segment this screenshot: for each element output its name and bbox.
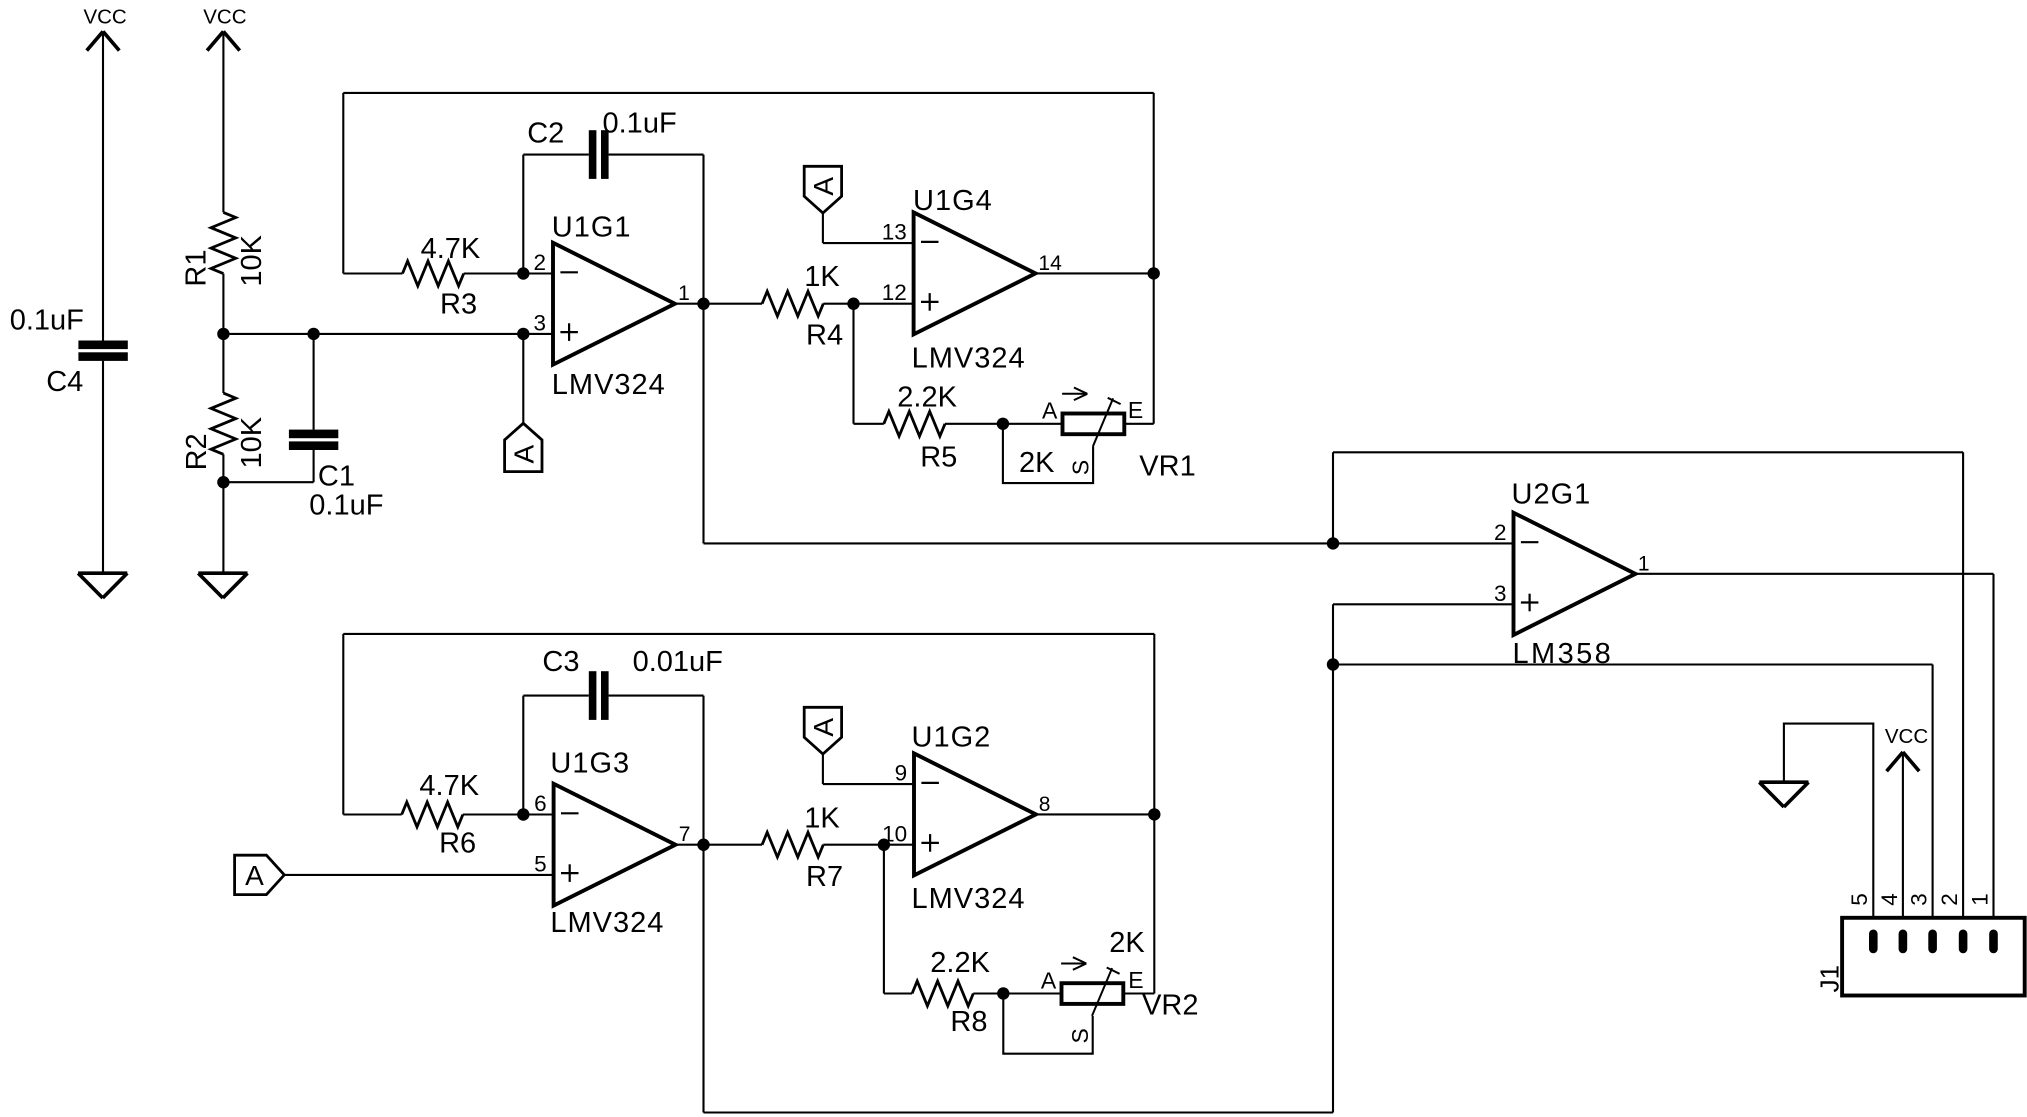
C2 value label 0.1uF	[603, 108, 677, 140]
svg-text:C4: C4	[46, 366, 83, 398]
wire node to C1	[313, 334, 315, 430]
svg-text:R2: R2	[181, 433, 213, 470]
svg-text:1K: 1K	[804, 803, 840, 835]
svg-text:U2G1: U2G1	[1512, 479, 1592, 511]
R1 ref label	[181, 250, 213, 287]
svg-text:U1G4: U1G4	[913, 185, 993, 217]
R7 ref label	[806, 861, 843, 893]
svg-text:A: A	[808, 718, 839, 737]
wire to J1 pin2 (top)	[1333, 452, 1963, 930]
R4 ref label	[806, 320, 843, 352]
ground GND3 (J1)	[1759, 782, 1808, 807]
VR1 value label 2K	[1019, 447, 1055, 479]
U1G3 pin 5 number	[534, 851, 547, 876]
wire U1G3 out to R7	[676, 844, 763, 846]
wire riser left to R3	[343, 93, 402, 274]
svg-text:VCC: VCC	[1885, 725, 1928, 748]
power flag VCC #1	[83, 5, 126, 50]
junction R4/R5 node	[847, 298, 859, 310]
svg-text:R1: R1	[181, 250, 213, 287]
junction U1G2 out / feedback	[1148, 808, 1160, 820]
svg-text:0.1uF: 0.1uF	[309, 490, 383, 522]
resistor R3	[403, 261, 464, 286]
wire VCC1 to C4	[102, 31, 104, 340]
wire pin3 node down to flag	[522, 334, 524, 423]
resistor R7	[762, 832, 823, 857]
svg-text:LMV324: LMV324	[552, 369, 666, 401]
R6 ref label	[439, 827, 476, 859]
R6 value label 4.7K	[419, 770, 479, 802]
wire U2G1 output to J1 pin1	[1635, 574, 1993, 930]
U2G1 value label LM358	[1513, 638, 1614, 670]
VR2 terminal label S	[1067, 1028, 1093, 1043]
VR1 terminal label E	[1128, 397, 1143, 423]
capacitor C3	[589, 671, 609, 720]
resistor R8	[912, 981, 973, 1006]
junction U1G3 pin6 node	[517, 808, 529, 820]
C2 ref label	[527, 117, 564, 149]
wire divider node to U1G1 pin3	[223, 333, 553, 335]
potentiometer VR2	[1061, 957, 1123, 1016]
wire flag to U1G2 pin9	[823, 754, 914, 784]
global label A (U1G3 +in)	[235, 855, 285, 894]
R3 value label 4.7K	[421, 233, 481, 265]
U1G3 pin 6 number	[534, 791, 547, 816]
svg-text:0.1uF: 0.1uF	[10, 305, 84, 337]
wire junction to GND2	[222, 482, 224, 573]
wire C4 to GND1	[102, 361, 104, 573]
wire stage2 riser to U2G1 pin3	[1332, 665, 1334, 1113]
svg-text:2K: 2K	[1109, 927, 1145, 959]
svg-text:R4: R4	[806, 320, 843, 352]
junction R2/C1 bottom	[217, 476, 229, 488]
svg-text:4.7K: 4.7K	[421, 233, 481, 265]
svg-text:S: S	[1068, 460, 1094, 475]
wire branch up	[1332, 452, 1334, 543]
svg-text:1: 1	[1638, 552, 1650, 575]
svg-text:A: A	[509, 444, 540, 463]
C1 ref label	[318, 460, 355, 492]
junction R1/R2 node	[217, 328, 229, 340]
svg-text:4.7K: 4.7K	[419, 770, 479, 802]
svg-text:A: A	[1042, 397, 1058, 423]
svg-text:R8: R8	[950, 1006, 987, 1038]
U1G4 pin 13 number	[882, 220, 907, 245]
R2 value label 10K	[236, 416, 268, 468]
capacitor C4	[78, 341, 127, 361]
svg-text:A: A	[808, 177, 839, 196]
svg-text:9: 9	[895, 761, 908, 786]
wire C3 to U1G3 output vertical	[609, 696, 704, 1113]
resistor R1	[211, 212, 236, 273]
wire R3 to U1G1 pin2	[464, 272, 553, 274]
junction R7/R8 node	[878, 839, 890, 851]
J1 pin 4 number	[1877, 893, 1902, 906]
svg-text:6: 6	[534, 791, 547, 816]
svg-text:C2: C2	[527, 117, 564, 149]
R2 ref label	[181, 433, 213, 470]
capacitor C2	[589, 130, 609, 179]
wire stage1 out rail to U2G1 pin2	[704, 542, 1514, 544]
wire node to R2	[222, 334, 224, 393]
svg-text:R6: R6	[439, 827, 476, 859]
wire VR1 S loop	[1003, 424, 1093, 483]
C1 value label 0.1uF	[309, 490, 383, 522]
wire feedback top rail (U1G4 out to R3)	[343, 92, 1153, 94]
junction stage2 node	[1327, 658, 1339, 670]
wire U1G2 output	[1036, 813, 1154, 815]
wire VR2 S loop	[1003, 994, 1092, 1054]
U1G1 value label LMV324	[552, 369, 666, 401]
svg-text:C1: C1	[318, 460, 355, 492]
R5 value label 2.2K	[897, 381, 957, 413]
J1 ref label	[1814, 965, 1844, 992]
svg-text:13: 13	[882, 220, 907, 245]
U1G1 pin 2 number	[533, 250, 546, 275]
U1G2 ref label	[912, 721, 992, 753]
wire flag to U1G4 pin13	[823, 213, 914, 243]
wire pin6 node to C3	[523, 696, 589, 815]
wire U1G2 out vertical	[1153, 634, 1155, 994]
potentiometer VR1	[1062, 388, 1124, 447]
C4 ref label	[46, 366, 83, 398]
op-amp U1G1	[553, 243, 675, 365]
svg-text:VCC: VCC	[203, 5, 246, 28]
VR2 value label 2K	[1109, 927, 1145, 959]
VR1 terminal label S	[1068, 460, 1094, 475]
global label A (U1G4 -in)	[804, 166, 841, 213]
junction U1G4 out / feedback	[1148, 267, 1160, 279]
svg-text:2K: 2K	[1019, 447, 1055, 479]
wire node to U2G1 pin3	[1333, 604, 1514, 664]
wire R6 to U1G3 pin6	[463, 813, 554, 815]
svg-text:14: 14	[1038, 252, 1062, 275]
U2G1 pin 2 number	[1494, 520, 1507, 545]
svg-text:LMV324: LMV324	[550, 907, 664, 939]
svg-text:4: 4	[1877, 893, 1902, 906]
svg-text:10K: 10K	[236, 234, 268, 286]
svg-text:R3: R3	[440, 288, 477, 320]
junction U1G1 pin3 node	[517, 328, 529, 340]
global label A (U1G2 -in)	[804, 707, 841, 754]
op-amp U1G3	[554, 784, 676, 906]
svg-text:12: 12	[882, 280, 907, 305]
svg-text:LMV324: LMV324	[912, 343, 1026, 375]
wire R7 to U1G2 pin10	[823, 844, 914, 846]
R1 value label 10K	[236, 234, 268, 286]
wire flag to U1G3 pin5	[284, 874, 553, 876]
svg-text:1K: 1K	[804, 261, 840, 293]
svg-text:LM358: LM358	[1513, 638, 1614, 670]
VR2 terminal label E	[1128, 967, 1143, 993]
wire R4 to U1G4 pin12	[823, 303, 913, 305]
U1G4 value label LMV324	[912, 343, 1026, 375]
U1G1 pin 1 number	[678, 282, 690, 305]
U2G1 pin 1 number	[1638, 552, 1650, 575]
junction U1G1 pin2 node	[517, 267, 529, 279]
svg-text:10: 10	[882, 822, 907, 847]
svg-text:A: A	[1041, 968, 1057, 994]
R5 ref label	[920, 442, 957, 474]
wire C2 to U1G1 output vertical	[609, 155, 704, 544]
svg-text:S: S	[1067, 1028, 1093, 1043]
resistor R4	[762, 291, 823, 316]
svg-text:A: A	[245, 860, 264, 891]
connector J1	[1842, 918, 2025, 996]
U2G1 pin 3 number	[1494, 581, 1507, 606]
wire pin2 node to C2	[523, 155, 589, 274]
wire node to J1 pin3	[1333, 665, 1933, 931]
op-amp U2G1	[1514, 513, 1636, 635]
junction R8/VR2 wiper node	[997, 987, 1009, 999]
wire VCC2 to R1	[222, 31, 224, 212]
junction R5/VR1 wiper node	[997, 418, 1009, 430]
J1 pin 1 number	[1967, 893, 1992, 906]
svg-text:1: 1	[678, 282, 690, 305]
svg-text:VCC: VCC	[83, 5, 126, 28]
resistor R2	[211, 393, 236, 454]
svg-text:U1G3: U1G3	[550, 748, 630, 780]
wire node down to R5	[854, 304, 884, 424]
wire R8 to VR2	[973, 992, 1061, 994]
wire node down to R8	[884, 845, 912, 994]
U2G1 ref label	[1512, 479, 1592, 511]
U1G1 ref label	[552, 211, 632, 243]
svg-text:8: 8	[1039, 793, 1051, 816]
C3 value label 0.01uF	[633, 646, 723, 678]
R4 value label 1K	[804, 261, 840, 293]
wire U1G1 out to R4	[675, 303, 762, 305]
resistor R6	[402, 802, 463, 827]
ground GND1	[78, 573, 127, 598]
svg-text:U1G1: U1G1	[552, 211, 632, 243]
svg-text:3: 3	[533, 310, 546, 335]
svg-text:10K: 10K	[236, 416, 268, 468]
op-amp U1G2	[914, 753, 1036, 875]
svg-text:1: 1	[1967, 893, 1992, 906]
ground GND2	[198, 573, 247, 598]
wire VCC to J1 pin4	[1902, 752, 1904, 930]
svg-text:R5: R5	[920, 442, 957, 474]
svg-text:2: 2	[533, 250, 546, 275]
wire R2 to junction	[222, 454, 224, 482]
U1G4 pin 12 number	[882, 280, 907, 305]
U1G2 pin 9 number	[895, 761, 908, 786]
U1G2 pin 8 number	[1039, 793, 1051, 816]
VR2 terminal label A	[1041, 968, 1057, 994]
VR1 terminal label A	[1042, 397, 1058, 423]
svg-text:0.01uF: 0.01uF	[633, 646, 723, 678]
capacitor C1	[289, 430, 338, 450]
svg-text:C3: C3	[542, 646, 579, 678]
VR2 ref label	[1142, 990, 1198, 1022]
svg-text:5: 5	[534, 851, 547, 876]
svg-text:2: 2	[1494, 520, 1507, 545]
wire R5 to VR1	[945, 423, 1063, 425]
svg-text:3: 3	[1494, 581, 1507, 606]
U1G4 pin 14 number	[1038, 252, 1062, 275]
VR1 ref label	[1139, 451, 1195, 483]
svg-text:R7: R7	[806, 861, 843, 893]
J1 pin 2 number	[1937, 893, 1962, 906]
svg-text:J1: J1	[1814, 965, 1844, 992]
svg-text:LMV324: LMV324	[912, 883, 1026, 915]
U1G2 pin 10 number	[882, 822, 907, 847]
R7 value label 1K	[804, 803, 840, 835]
junction stage1 rail / J1 pin2 branch	[1327, 537, 1339, 549]
wire feedback top rail (U1G2 out to R6)	[343, 633, 1154, 635]
junction C1 top	[307, 328, 319, 340]
wire C1 to junction	[223, 450, 313, 482]
svg-text:3: 3	[1907, 893, 1932, 906]
junction U1G1 output	[697, 298, 709, 310]
U1G3 value label LMV324	[550, 907, 664, 939]
svg-text:E: E	[1128, 397, 1143, 423]
C3 ref label	[542, 646, 579, 678]
wire GND3 to J1 pin5	[1784, 724, 1873, 930]
wire riser left to R6	[343, 634, 401, 815]
R8 ref label	[950, 1006, 987, 1038]
junction U1G3 output	[697, 839, 709, 851]
resistor R5	[884, 411, 945, 436]
power flag VCC #2	[203, 5, 246, 50]
J1 pin 3 number	[1907, 893, 1932, 906]
J1 pin 5 number	[1847, 893, 1872, 906]
U1G2 value label LMV324	[912, 883, 1026, 915]
wire VR1 E to feedback vertical	[1124, 423, 1153, 425]
U1G1 pin 3 number	[533, 310, 546, 335]
R8 value label 2.2K	[930, 947, 990, 979]
global label A (U1G1 +in)	[505, 423, 542, 471]
wire feedback right vertical	[1153, 93, 1155, 424]
U1G4 ref label	[913, 185, 993, 217]
wire stage2 out rail	[704, 1111, 1334, 1113]
wire VR2 E to U1G2 out vertical	[1124, 992, 1154, 994]
svg-text:2.2K: 2.2K	[930, 947, 990, 979]
svg-text:0.1uF: 0.1uF	[603, 108, 677, 140]
C4 value label 0.1uF	[10, 305, 84, 337]
svg-text:2.2K: 2.2K	[897, 381, 957, 413]
svg-text:7: 7	[679, 823, 691, 846]
svg-text:U1G2: U1G2	[912, 721, 992, 753]
U1G3 pin 7 number	[679, 823, 691, 846]
svg-text:VR1: VR1	[1139, 451, 1195, 483]
op-amp U1G4	[914, 212, 1036, 334]
wire R1 to node A1	[222, 274, 224, 334]
svg-text:5: 5	[1847, 893, 1872, 906]
svg-text:2: 2	[1937, 893, 1962, 906]
wire U1G4 output	[1036, 272, 1154, 274]
U1G3 ref label	[550, 748, 630, 780]
power flag VCC #3 (J1)	[1885, 725, 1928, 771]
R3 ref label	[440, 288, 477, 320]
